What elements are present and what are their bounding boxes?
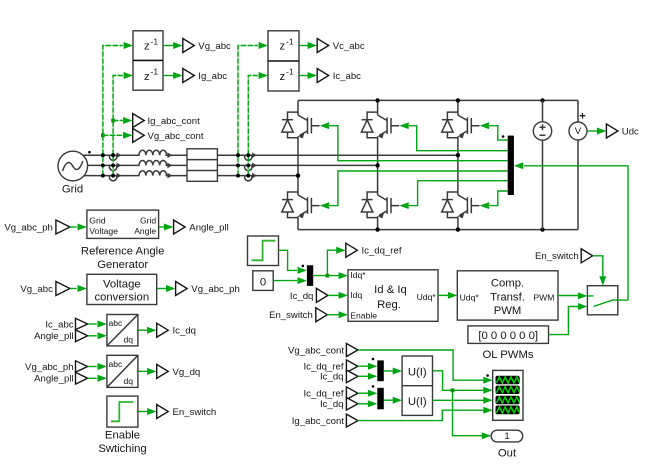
svg-text:U(I): U(I) bbox=[408, 396, 427, 408]
svg-text:V: V bbox=[575, 126, 582, 137]
svg-text:-1: -1 bbox=[151, 67, 159, 77]
svg-text:1: 1 bbox=[504, 431, 509, 442]
wire Udc measurement bbox=[587, 130, 597, 132]
svg-text:Generator: Generator bbox=[97, 259, 148, 271]
wire gate Q2 (tap2) bbox=[408, 126, 508, 151]
outport En_switch bbox=[157, 405, 169, 419]
svg-text:Id & Iq: Id & Iq bbox=[374, 284, 407, 296]
transformer block bbox=[187, 149, 217, 182]
svg-text:Vg_abc_ph: Vg_abc_ph bbox=[25, 362, 74, 373]
outport Angle_pll bbox=[174, 220, 186, 234]
wire voltage conversion out bbox=[157, 288, 166, 290]
block abc-dq 2 bbox=[107, 355, 138, 387]
leg 3 wire bbox=[457, 100, 459, 229]
svg-text:OL PWMs: OL PWMs bbox=[482, 349, 533, 361]
svg-text:Vg_abc_ph: Vg_abc_ph bbox=[191, 284, 240, 295]
svg-text:Angle_pll: Angle_pll bbox=[34, 331, 73, 342]
IGBT Q4 bottom leg1 bbox=[282, 192, 320, 219]
outport Vg_dq bbox=[157, 364, 169, 378]
svg-text:Idq: Idq bbox=[350, 290, 362, 300]
svg-text:-1: -1 bbox=[151, 36, 159, 46]
block manual switch bbox=[587, 286, 617, 315]
svg-text:Ic_dq: Ic_dq bbox=[320, 399, 343, 410]
line arrows after Ig meters bbox=[117, 152, 122, 178]
svg-text:Ic_dq: Ic_dq bbox=[290, 291, 313, 302]
wire mux2 to U(I)2 bbox=[384, 399, 393, 401]
wire Ig_abc_cont to scope in4 bbox=[358, 410, 484, 420]
current meter Ig phase C bbox=[111, 174, 115, 178]
phase line C bbox=[84, 175, 299, 177]
svg-text:Angle_pll: Angle_pll bbox=[34, 373, 73, 384]
outport Ic_abc bbox=[317, 69, 329, 83]
wire gate Q5 (tap5) bbox=[408, 181, 508, 206]
IGBT Q2 top leg2 bbox=[361, 112, 399, 138]
wire to outport 1 bbox=[453, 390, 483, 435]
inductor Lc bbox=[139, 171, 167, 176]
svg-text:Angle: Angle bbox=[134, 226, 156, 236]
node out branch bbox=[451, 388, 455, 392]
svg-text:En_switch: En_switch bbox=[269, 310, 313, 321]
outport Vg_abc_ph bbox=[176, 282, 188, 296]
svg-text:Enable: Enable bbox=[350, 311, 377, 321]
svg-text:Vg_abc: Vg_abc bbox=[198, 41, 231, 52]
svg-text:Ic_dq_ref: Ic_dq_ref bbox=[362, 246, 402, 257]
svg-text:z: z bbox=[144, 71, 150, 83]
svg-text:PWM: PWM bbox=[494, 305, 522, 317]
wire z2 out to Vc_abc bbox=[299, 45, 308, 47]
wire U(I)2 out to scope in3 bbox=[433, 399, 484, 401]
block U(I) 2 bbox=[402, 386, 432, 416]
IGBT Q1 top leg1 bbox=[282, 112, 320, 138]
outport Vg_abc_cont bbox=[133, 128, 145, 142]
block Id & Iq Reg. bbox=[348, 270, 438, 322]
node Vg_abc_cont branch bbox=[101, 133, 105, 137]
svg-text:Swtiching: Swtiching bbox=[98, 443, 146, 455]
current meter Ig phase B bbox=[111, 164, 115, 168]
IGBT Q5 bottom leg2 bbox=[361, 192, 399, 219]
svg-text:Udq*: Udq* bbox=[460, 292, 480, 302]
node Ig_abc_cont branch bbox=[111, 119, 115, 123]
wires into dq1 bbox=[88, 323, 97, 325]
wire to RAG bbox=[70, 226, 77, 228]
phase line A bbox=[84, 154, 458, 156]
svg-text:Reg.: Reg. bbox=[377, 299, 401, 311]
block Enable Switching step bbox=[107, 396, 138, 427]
block Voltage conversion bbox=[87, 274, 157, 304]
svg-text:Grid: Grid bbox=[62, 184, 83, 196]
svg-text:Transf.: Transf. bbox=[490, 291, 525, 303]
svg-text:Angle_pll: Angle_pll bbox=[189, 222, 228, 233]
svg-text:En_switch: En_switch bbox=[535, 251, 579, 262]
leg 2 wire bbox=[377, 100, 379, 229]
wire enable out bbox=[138, 411, 147, 413]
wire Vg_abc_cont to scope in1 bbox=[358, 350, 484, 380]
svg-text:-1: -1 bbox=[286, 36, 294, 46]
svg-text:[0 0 0 0 0 0]: [0 0 0 0 0 0] bbox=[478, 330, 538, 342]
voltmeter V bbox=[577, 100, 579, 229]
svg-text:Voltage: Voltage bbox=[89, 226, 118, 236]
wire Vc probe vertical bbox=[238, 46, 258, 176]
svg-text:0: 0 bbox=[260, 277, 266, 289]
phase line B bbox=[87, 164, 378, 166]
wire z2 out to Ic_abc bbox=[299, 75, 308, 77]
delay block pair 1 (Vg/Ig) bbox=[133, 31, 163, 90]
outport Udc bbox=[606, 124, 618, 138]
svg-text:Grid: Grid bbox=[89, 215, 105, 225]
inductor La bbox=[139, 150, 167, 155]
svg-text:Ig_abc_cont: Ig_abc_cont bbox=[148, 116, 201, 127]
svg-text:-1: -1 bbox=[286, 67, 294, 77]
IGBT Q6 bottom leg3 bbox=[442, 192, 480, 219]
leg 1 wire bbox=[297, 100, 299, 229]
outport Ic_dq_ref bbox=[346, 243, 358, 257]
wire gate Q6 (tap6) bbox=[488, 191, 508, 206]
svg-text:Enable: Enable bbox=[105, 430, 140, 442]
svg-text:dq: dq bbox=[124, 335, 134, 345]
block constant 0 bbox=[253, 271, 273, 291]
grid AC source bbox=[58, 151, 88, 181]
svg-text:Ic_dq: Ic_dq bbox=[320, 372, 343, 383]
wire mux out to Idq* port bbox=[313, 275, 338, 277]
block abc-dq 1 bbox=[107, 315, 138, 346]
wires into dq2 bbox=[88, 366, 97, 368]
wire dq1 out bbox=[138, 329, 147, 331]
bottom DC rail bbox=[298, 229, 578, 231]
wire Udq* bbox=[438, 294, 448, 296]
block Comp. Transf. PWM bbox=[457, 271, 558, 320]
svg-text:Vg_abc_ph: Vg_abc_ph bbox=[4, 222, 53, 233]
wire OL PWMs to switch bbox=[549, 307, 579, 335]
wire step to mux bbox=[279, 250, 298, 270]
wire Ig probe vertical bbox=[113, 76, 123, 176]
block step source bbox=[248, 236, 279, 266]
current meter Ic phase B bbox=[246, 164, 250, 168]
voltage tap dots Vg bbox=[101, 153, 105, 157]
line arrows after Ic meters bbox=[252, 152, 257, 178]
wire RAG out bbox=[159, 226, 165, 228]
wire Vg probe vertical bbox=[103, 46, 123, 176]
wire dq2 out bbox=[138, 370, 147, 372]
block constant OL PWMs bbox=[468, 326, 549, 344]
wire switch out (up right) drawn earlier as PWM bus bbox=[618, 299, 628, 301]
svg-text:Vg_abc_cont: Vg_abc_cont bbox=[148, 131, 204, 142]
svg-text:z: z bbox=[144, 41, 150, 53]
svg-text:PWM: PWM bbox=[533, 292, 554, 302]
svg-text:z: z bbox=[280, 71, 286, 83]
svg-text:Udc: Udc bbox=[622, 127, 639, 138]
outport Ig_abc_cont bbox=[133, 114, 145, 128]
wire to voltage conversion bbox=[70, 288, 77, 290]
svg-text:Vg_abc: Vg_abc bbox=[20, 284, 53, 295]
tap junction dots over wires bbox=[101, 153, 250, 177]
wire z1 out to Ig_abc bbox=[163, 75, 174, 77]
svg-text:Ic_abc: Ic_abc bbox=[45, 319, 73, 330]
outport Vg_abc bbox=[183, 39, 195, 53]
svg-text:z: z bbox=[280, 41, 286, 53]
node Ic_dq_ref branch bbox=[326, 274, 330, 278]
outport Ig_abc bbox=[183, 69, 195, 83]
outport block Out bbox=[491, 430, 523, 442]
junction dots bridge bbox=[375, 98, 379, 102]
wire gate Q3 (tap1) bbox=[488, 126, 508, 140]
top DC rail bbox=[298, 99, 578, 101]
DC voltage source Vdc bbox=[542, 100, 544, 229]
svg-text:Ig_abc: Ig_abc bbox=[198, 71, 227, 82]
outport Vc_abc bbox=[317, 39, 329, 53]
outport Ic_dq bbox=[157, 323, 169, 337]
svg-text:conversion: conversion bbox=[94, 292, 149, 304]
svg-text:Ig_abc_cont: Ig_abc_cont bbox=[292, 416, 345, 427]
svg-text:Vc_abc: Vc_abc bbox=[333, 41, 365, 52]
block Reference Angle Generator bbox=[87, 210, 159, 238]
mux Idq* bbox=[307, 265, 313, 286]
line arrows after inductors bbox=[167, 152, 172, 178]
svg-text:Out: Out bbox=[498, 448, 517, 460]
svg-text:Vg_dq: Vg_dq bbox=[173, 367, 201, 378]
current meter Ig phase A bbox=[111, 153, 115, 157]
inductor Lb bbox=[139, 161, 167, 166]
IGBT Q3 top leg3 bbox=[442, 112, 480, 138]
svg-text:Grid: Grid bbox=[140, 215, 156, 225]
svg-text:abc: abc bbox=[109, 318, 124, 328]
wire En_switch to switch bbox=[593, 256, 603, 277]
svg-text:Ic_dq: Ic_dq bbox=[173, 326, 196, 337]
wire Ic probe vertical bbox=[248, 76, 257, 176]
wire PWM bus from switch bbox=[524, 166, 628, 300]
wire mux1 to U(I)1 bbox=[384, 370, 393, 372]
scope block bbox=[493, 370, 523, 420]
svg-text:abc: abc bbox=[109, 359, 124, 369]
svg-text:Idq*: Idq* bbox=[350, 270, 366, 280]
svg-text:Ic_dq_ref: Ic_dq_ref bbox=[303, 388, 343, 399]
svg-text:Ic_abc: Ic_abc bbox=[333, 71, 361, 82]
svg-text:Comp.: Comp. bbox=[491, 278, 524, 290]
voltage tap dots Vc bbox=[236, 153, 240, 157]
svg-text:dq: dq bbox=[124, 376, 134, 386]
wire gate Q4 (tap4) bbox=[328, 171, 508, 206]
block U(I) 1 bbox=[402, 356, 432, 386]
wire z1 out to Vg_abc bbox=[163, 45, 174, 47]
current meter Ic phase C bbox=[246, 174, 250, 178]
wire gate Q1 (tap3) bbox=[328, 126, 508, 161]
gate demux bar bbox=[508, 136, 514, 195]
svg-text:Voltage: Voltage bbox=[103, 279, 141, 291]
current meter Ic phase A bbox=[246, 153, 250, 157]
svg-text:U(I): U(I) bbox=[408, 366, 427, 378]
svg-text:Reference Angle: Reference Angle bbox=[81, 246, 165, 258]
wire 0 to mux bbox=[273, 280, 297, 282]
wire U(I)1 out to scope in2 bbox=[433, 371, 484, 391]
delay block pair 2 (Vc/Ic) bbox=[268, 31, 299, 91]
svg-text:En_switch: En_switch bbox=[173, 407, 217, 418]
mux 2 bbox=[377, 388, 384, 410]
wire PWM to switch bbox=[558, 295, 578, 297]
mux 1 bbox=[377, 360, 384, 381]
svg-text:Vg_abc_cont: Vg_abc_cont bbox=[288, 345, 344, 356]
svg-text:Udq*: Udq* bbox=[417, 292, 437, 302]
